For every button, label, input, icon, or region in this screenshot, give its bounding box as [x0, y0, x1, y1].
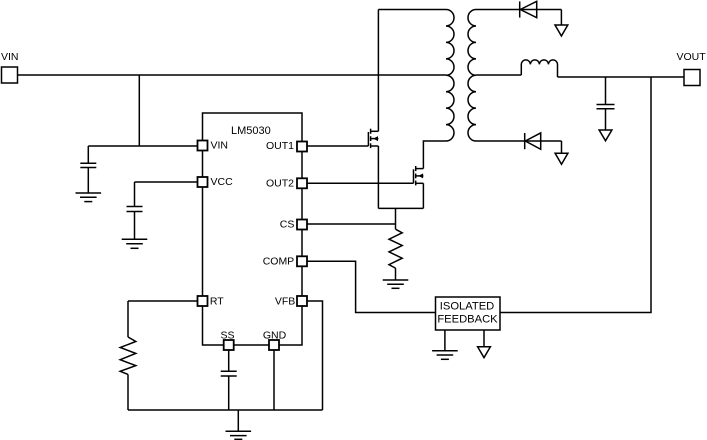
capacitor C4 (output) — [597, 77, 615, 130]
wire source junction — [378, 207, 423, 209]
wire VIN pin — [88, 145, 197, 147]
pin OUT1 — [266, 140, 307, 152]
capacitor C3 (SS) — [221, 350, 237, 410]
pin OUT2 — [266, 177, 307, 189]
inductor L1 — [521, 60, 557, 77]
ground arrow (D2 return) — [555, 153, 568, 164]
capacitor C1 (VIN bypass) — [80, 146, 96, 193]
wire feedback ground stem — [444, 330, 446, 351]
svg-text:GND: GND — [263, 329, 287, 341]
pin VFB — [275, 295, 307, 307]
wire D2 anode down — [561, 141, 563, 153]
svg-text:FEEDBACK: FEEDBACK — [437, 314, 498, 326]
terminal VIN — [1, 51, 19, 83]
wire secondary top to D1 — [476, 9, 520, 11]
pin RT — [198, 295, 225, 307]
wire RT pin — [128, 300, 198, 302]
ground (C1) — [76, 193, 102, 202]
pin VCC — [198, 176, 234, 188]
pin VIN — [198, 140, 229, 152]
ground (main) — [226, 410, 252, 439]
wire VIN rail to transformer center tap — [18, 74, 447, 76]
op-amp U1 LM5030 controller body — [203, 113, 303, 345]
wire OUT1 to Q1 gate — [307, 145, 368, 147]
svg-text:SS: SS — [220, 329, 234, 341]
diode D2 — [525, 133, 562, 149]
ground (feedback) — [432, 351, 458, 360]
wire GND pin stem — [273, 350, 275, 410]
svg-text:OUT2: OUT2 — [266, 177, 294, 189]
wire VOUT to feedback — [500, 77, 651, 313]
svg-text:CS: CS — [280, 219, 295, 231]
capacitor C2 (VCC bypass) — [127, 182, 143, 239]
wire COMP to feedback — [307, 261, 436, 312]
svg-text:ISOLATED: ISOLATED — [440, 300, 495, 312]
transformer T1 secondary winding — [468, 10, 476, 142]
pin SS — [220, 329, 234, 350]
wire Q1 source down — [377, 146, 379, 208]
svg-text:VFB: VFB — [275, 295, 295, 307]
pin COMP — [263, 256, 307, 268]
resistor R2 (current sense) — [389, 229, 402, 280]
wire Q2 drain up — [422, 141, 424, 169]
ground arrow (C4 return) — [599, 130, 612, 141]
wire feedback arrow stem — [483, 330, 485, 347]
transformer T1 primary winding — [378, 10, 454, 142]
ground (C2) — [122, 239, 148, 248]
wire Q1 drain to transformer — [377, 10, 379, 132]
svg-text:COMP: COMP — [263, 256, 295, 268]
wire Q2 source down — [422, 183, 424, 208]
pin CS — [280, 219, 307, 231]
ground arrow (D1 return) — [555, 25, 568, 36]
svg-text:LM5030: LM5030 — [231, 125, 271, 137]
wire OUT2 to Q2 gate — [307, 182, 414, 184]
diode D1 — [520, 1, 562, 17]
ground (R2) — [383, 280, 409, 288]
wire D1 anode down — [560, 10, 562, 26]
isolated feedback block — [436, 297, 501, 330]
wire ground rail bottom — [128, 409, 323, 411]
wire junction to CS resistor — [395, 208, 397, 229]
svg-text:VIN: VIN — [1, 51, 19, 63]
pin GND — [263, 329, 287, 350]
wire VCC pin — [135, 181, 198, 183]
svg-text:VCC: VCC — [211, 176, 234, 188]
wire VIN rail branch down — [138, 75, 140, 146]
svg-text:RT: RT — [210, 295, 224, 307]
wire VFB to ground rail — [307, 301, 323, 410]
wire CS — [307, 223, 396, 225]
ground arrow (feedback return) — [478, 347, 491, 358]
svg-text:VIN: VIN — [211, 140, 229, 152]
wire VOUT rail — [558, 76, 685, 78]
transistor Q2 (MOSFET) — [414, 166, 424, 185]
resistor R1 (RT) — [120, 301, 136, 410]
svg-text:OUT1: OUT1 — [266, 140, 294, 152]
wire secondary bottom to D2 — [476, 140, 525, 142]
terminal VOUT — [677, 51, 707, 86]
svg-text:VOUT: VOUT — [677, 51, 707, 63]
wire secondary center tap — [476, 74, 521, 76]
transistor Q1 (MOSFET) — [368, 129, 378, 148]
